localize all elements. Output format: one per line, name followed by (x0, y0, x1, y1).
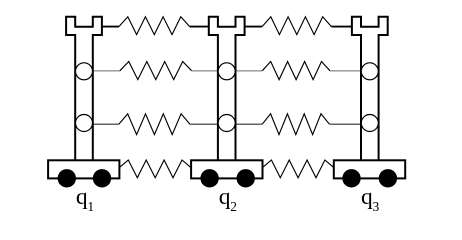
svg-text:q: q (219, 184, 231, 210)
post (mast) of cart 1 (66, 17, 102, 163)
svg-text:3: 3 (373, 199, 380, 214)
cart body 2 (191, 160, 262, 178)
lower pulley on mast 1 (76, 115, 93, 132)
wheel (left) of cart 2 (200, 169, 218, 187)
upper pulley on mast 3 (361, 63, 378, 80)
wheel (left) of cart 3 (342, 169, 360, 187)
post (mast) of cart 2 (209, 17, 245, 163)
wheel (right) of cart 2 (237, 169, 255, 187)
cart body 1 (48, 160, 119, 178)
svg-text:q: q (361, 184, 373, 210)
spring k (bottom row) between cart 1 and cart 2 (119, 160, 190, 178)
svg-text:2: 2 (230, 199, 237, 214)
spring k (top row) between mast 2 and mast 3 (245, 17, 352, 35)
upper pulley on mast 2 (218, 63, 235, 80)
spring k (third row) between lower pulleys 2-3 (235, 114, 361, 135)
lower pulley on mast 2 (218, 115, 235, 132)
wheel (right) of cart 3 (379, 169, 397, 187)
spring k (third row) between lower pulleys 1-2 (93, 114, 219, 135)
spring k (top row) between mast 1 and mast 2 (102, 17, 209, 35)
cart body 3 (334, 160, 405, 178)
spring k (bottom row) between cart 2 and cart 3 (263, 160, 334, 178)
wheel (right) of cart 1 (93, 169, 111, 187)
wheel (left) of cart 1 (58, 169, 76, 187)
spring k (second row) between upper pulleys 2-3 (235, 62, 361, 80)
upper pulley on mast 1 (76, 63, 93, 80)
post (mast) of cart 3 (352, 17, 388, 163)
svg-text:1: 1 (87, 199, 94, 214)
lower pulley on mast 3 (361, 115, 378, 132)
spring k (second row) between upper pulleys 1-2 (93, 62, 219, 80)
svg-text:q: q (76, 184, 88, 210)
